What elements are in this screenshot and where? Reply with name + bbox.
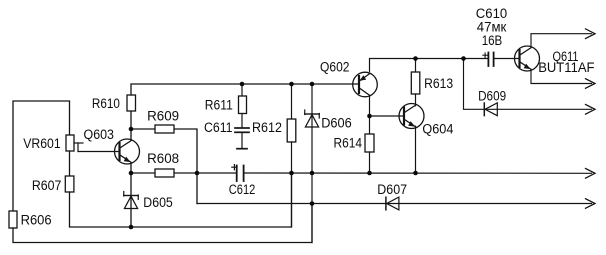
svg-text:R608: R608	[147, 151, 179, 166]
svg-text:R611: R611	[205, 97, 233, 112]
svg-text:Q604: Q604	[422, 121, 453, 136]
wire Q604 emitter down to y173	[415, 126, 417, 173]
resistor R612 column wire	[291, 84, 293, 119]
wire R613 bottom to Q604 collector	[415, 94, 417, 106]
wire C610 to Q611 base	[494, 58, 520, 60]
wire R609 branch	[131, 129, 197, 204]
diode D607	[386, 197, 399, 210]
transistor Q602	[353, 72, 378, 97]
node R612 top	[289, 82, 294, 87]
svg-text:Q603: Q603	[84, 127, 115, 142]
resistor R613	[411, 72, 420, 94]
transistor Q603	[115, 139, 140, 164]
node D609 top	[461, 56, 466, 61]
capacitor C610	[487, 53, 489, 67]
transistor Q611	[515, 46, 540, 71]
resistor R609	[155, 125, 174, 133]
zener column D606 vertical wire	[311, 84, 313, 243]
wire R606 bottom to bottom rail	[13, 204, 312, 243]
arrow out y33.7	[586, 29, 596, 39]
zener diode D606	[305, 110, 320, 127]
transistor Q604	[399, 104, 424, 129]
resistor R608	[155, 169, 174, 177]
svg-text:VR601: VR601	[23, 136, 61, 151]
node D606 top	[310, 82, 315, 87]
wire R612 bottom through y173 to y227 corner	[291, 142, 293, 227]
capacitor C612	[236, 166, 238, 182]
diode D609	[484, 103, 497, 116]
svg-text:D606: D606	[321, 115, 352, 130]
wire R608 run y173	[131, 172, 237, 174]
node Q603 collector	[129, 127, 134, 132]
node Q604 emitter bottom	[413, 171, 418, 176]
node R609 R608 join	[195, 171, 200, 176]
svg-text:R612: R612	[252, 120, 282, 135]
resistor R611 column: wire from y84	[241, 84, 243, 96]
node R612 bottom	[289, 171, 294, 176]
wire Q602 collector down	[369, 97, 371, 135]
node Q603 emitter	[129, 171, 134, 176]
node dots	[129, 56, 466, 229]
wire top-left loop	[13, 101, 70, 211]
arrow out y83.5	[586, 79, 596, 89]
wire VR601 to R607	[69, 151, 71, 176]
wire R607 bottom to mid rail	[70, 173, 292, 227]
capacitor C611	[235, 127, 249, 129]
svg-text:D607: D607	[377, 182, 407, 197]
node D606 mid	[310, 171, 315, 176]
wire VR601 wiper tap	[74, 142, 83, 144]
node D607 branch	[310, 201, 315, 206]
wire Q603 collector	[130, 111, 132, 141]
resistor R610	[127, 95, 136, 111]
svg-text:16В: 16В	[482, 33, 503, 48]
wire Q604 base	[370, 115, 405, 117]
resistor R607	[65, 176, 74, 192]
svg-text:R613: R613	[424, 76, 453, 91]
wire Q611 collector out	[531, 34, 592, 48]
svg-text:C611: C611	[204, 120, 233, 135]
svg-text:D609: D609	[478, 89, 506, 104]
wire Q603 base	[78, 151, 120, 153]
wire top rail y84 R610 to Q602 base	[131, 84, 359, 95]
arrow out y109.3	[586, 105, 596, 115]
resistor R611	[239, 96, 247, 114]
wire y203.5 to right arrow	[197, 203, 592, 205]
arrow out y173	[586, 169, 596, 179]
svg-text:R614: R614	[334, 136, 363, 151]
arrow out y203.5	[586, 199, 596, 209]
svg-text:BUT11AF: BUT11AF	[538, 60, 594, 75]
wire Q602 emitter to top rail y58.5	[370, 59, 489, 72]
node R611 top	[240, 82, 245, 87]
resistor R614	[365, 134, 374, 152]
svg-text:D605: D605	[143, 195, 173, 210]
wire C611 stub end	[241, 133, 243, 149]
svg-text:C612: C612	[229, 182, 256, 197]
svg-text:Q602: Q602	[320, 60, 350, 75]
resistor R606	[9, 211, 17, 228]
svg-text:R606: R606	[21, 213, 52, 228]
wire Q603 emitter down to mid rail	[130, 163, 132, 228]
svg-text:R610: R610	[92, 96, 120, 111]
node R613 top	[413, 56, 418, 61]
svg-text:R609: R609	[147, 109, 179, 124]
wire D609 branch vertical	[464, 59, 592, 110]
wire R614 bottom to y173	[369, 152, 371, 173]
zener diode D605	[124, 192, 139, 209]
wire R613 top lead	[415, 59, 417, 73]
wire y173 C612 to right arrow	[244, 172, 592, 174]
node D605 bottom	[129, 225, 134, 230]
potentiometer VR601	[66, 135, 74, 151]
node R614 bottom	[367, 171, 372, 176]
node Q604 base	[367, 114, 372, 119]
resistor R612	[287, 119, 296, 142]
svg-text:R607: R607	[32, 178, 62, 193]
wire Q611 emitter out	[531, 69, 592, 83]
wire R611 to C611	[241, 114, 243, 128]
